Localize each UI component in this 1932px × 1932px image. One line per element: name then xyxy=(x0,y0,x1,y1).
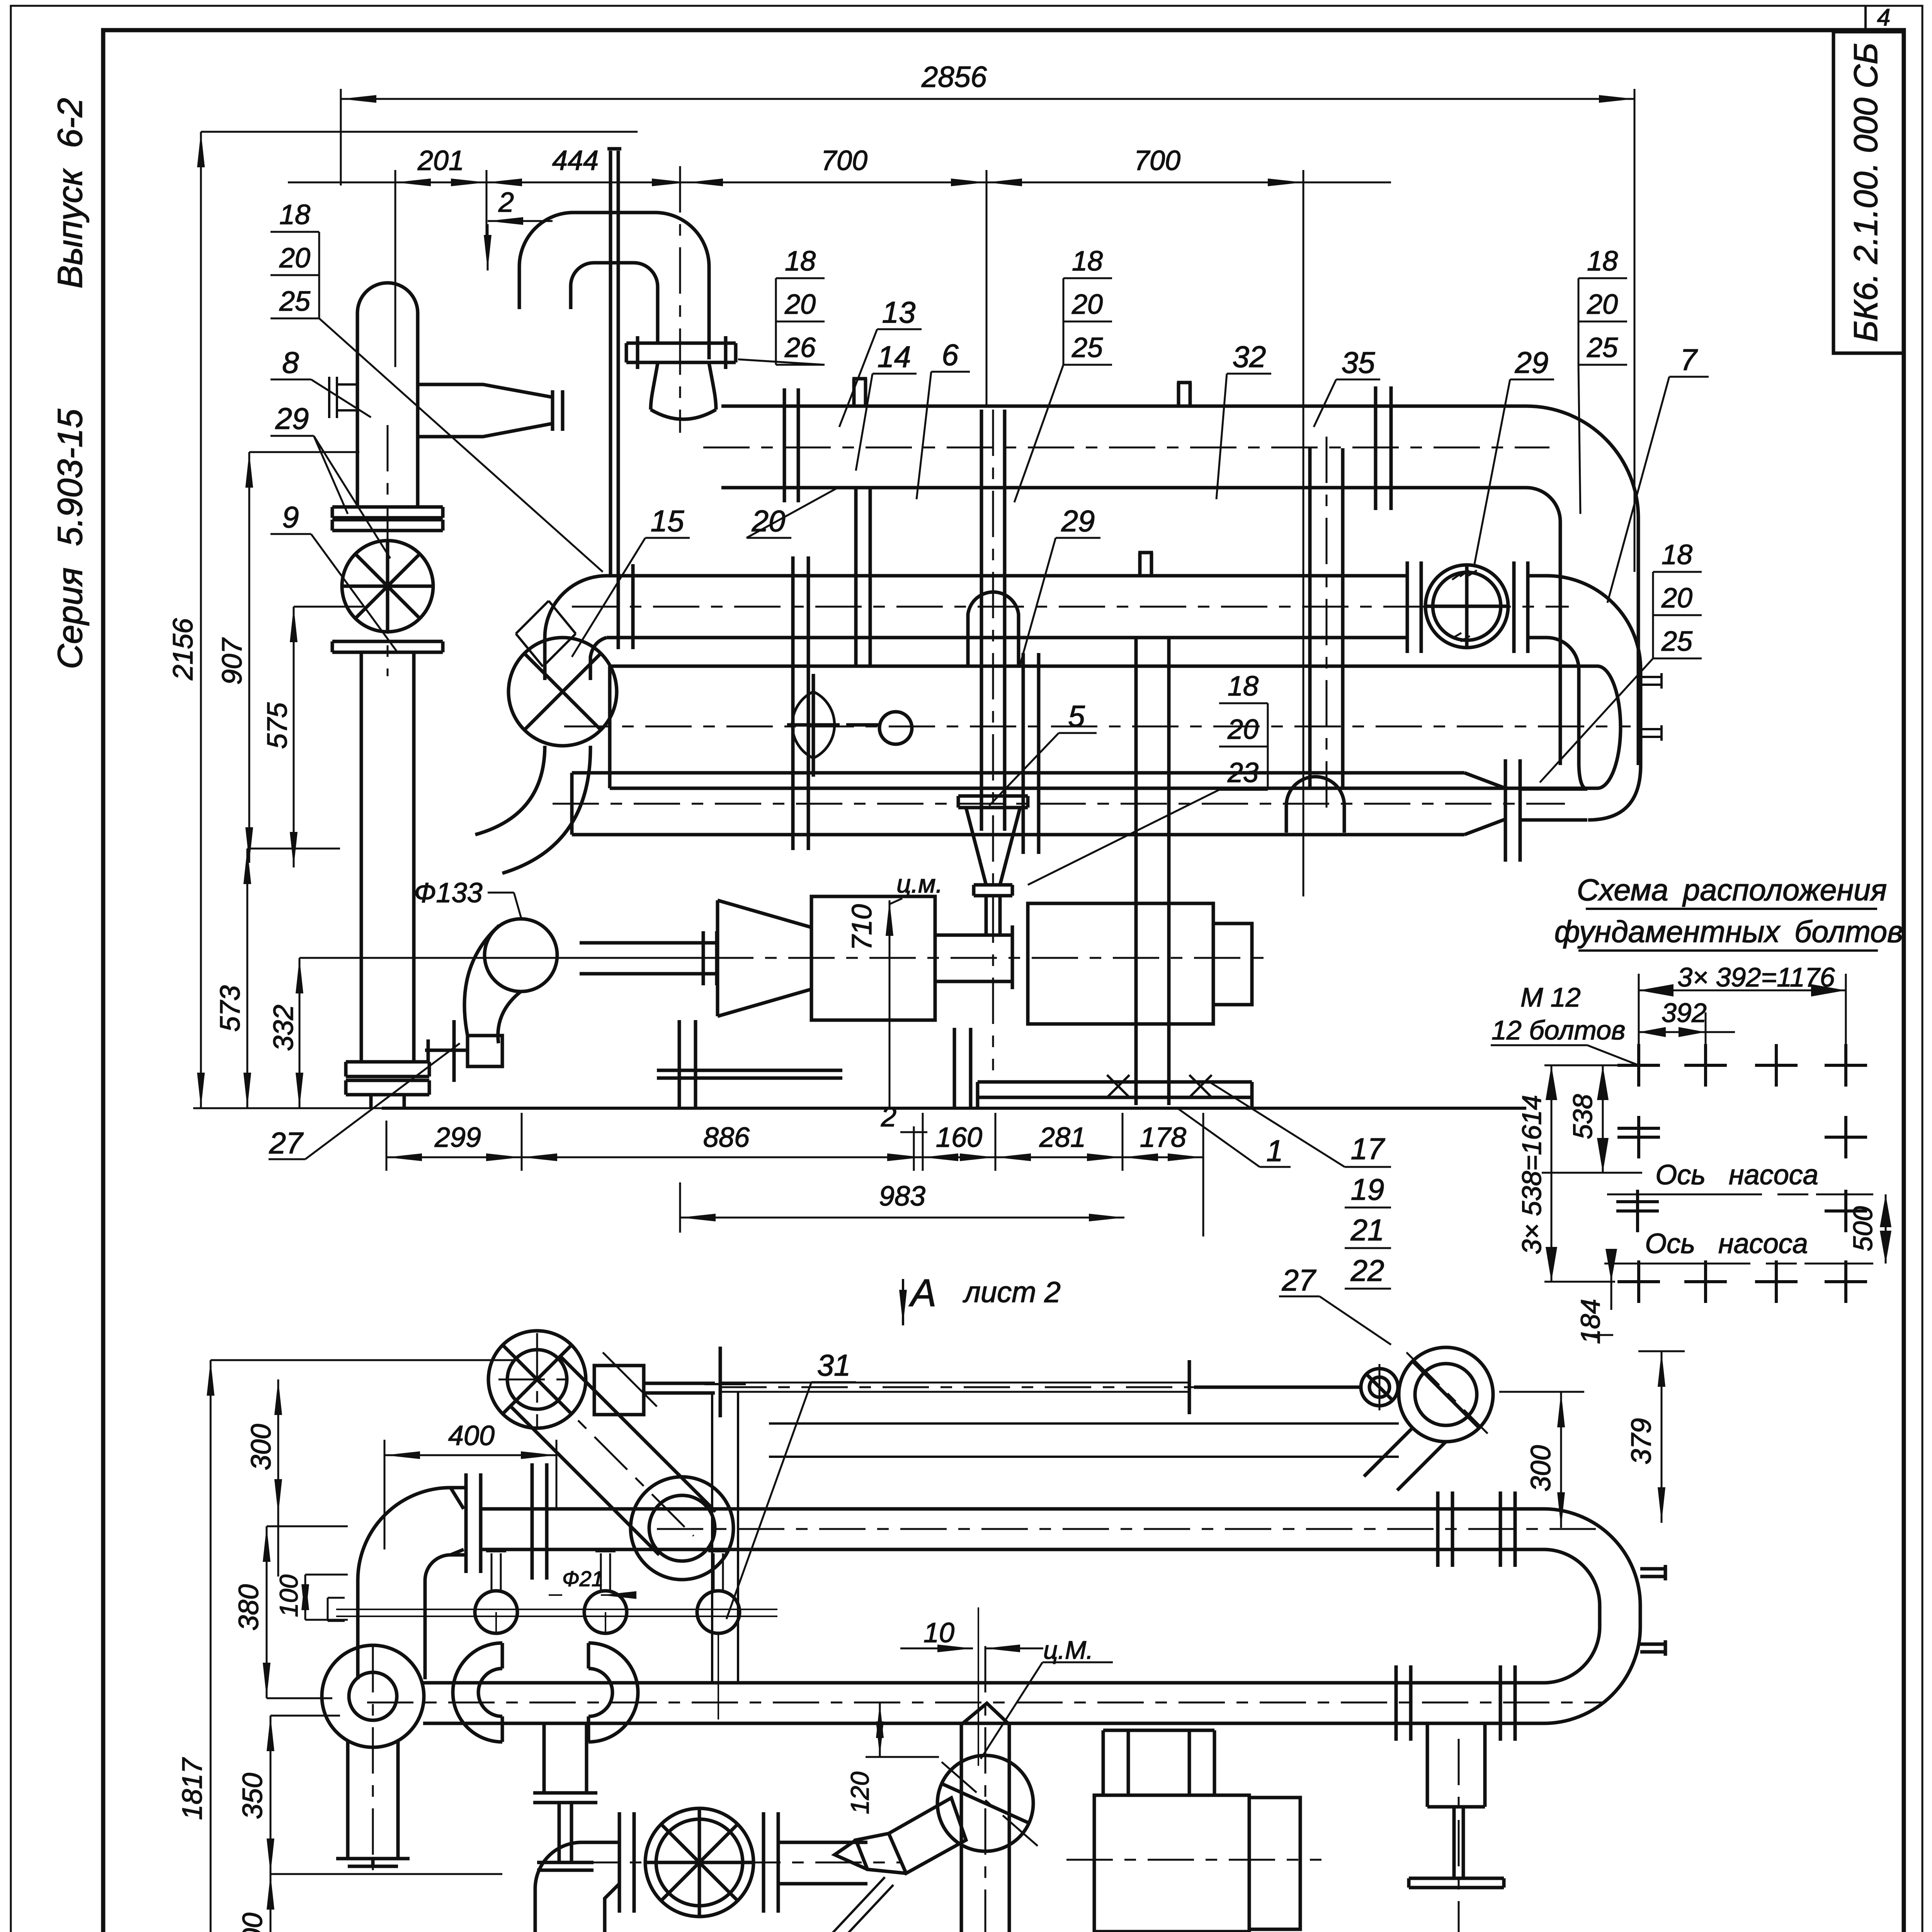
dim 300 left xyxy=(277,1379,279,1577)
elbow circle row B left xyxy=(631,1477,733,1580)
top pipe right elbow down xyxy=(1526,406,1638,587)
sheet number box xyxy=(1864,6,1867,30)
svg-text:18: 18 xyxy=(1072,246,1103,277)
left vertical dim 3x538=1614 xyxy=(1544,1065,1640,1282)
T branch on row C with support xyxy=(1427,1723,1485,1807)
handwheel valve 9 xyxy=(342,541,433,632)
dim row 201 444 700 700 xyxy=(288,170,1391,896)
svg-text:18: 18 xyxy=(1662,539,1692,570)
svg-text:178: 178 xyxy=(1140,1122,1186,1153)
svg-text:А: А xyxy=(909,1271,937,1315)
flange stack x2650 xyxy=(1023,653,1039,854)
valve 29 on band2 xyxy=(1425,565,1508,648)
reducer item 5 xyxy=(958,796,1028,808)
svg-text:575: 575 xyxy=(262,702,293,749)
svg-text:983: 983 xyxy=(879,1181,925,1212)
svg-text:500: 500 xyxy=(1848,1206,1878,1252)
riser pipe item 31 xyxy=(704,1384,746,1683)
svg-text:9: 9 xyxy=(282,500,299,534)
svg-text:6: 6 xyxy=(942,338,959,372)
dim 300 right xyxy=(1499,1392,1584,1528)
vertical stub pipe band3 to top pipe xyxy=(856,488,870,666)
row D pipe left elbow down to F159 main xyxy=(535,1842,619,1932)
svg-text:538: 538 xyxy=(1568,1094,1598,1139)
svg-text:332: 332 xyxy=(268,1005,299,1051)
callout box 18 20 23 xyxy=(1227,671,1259,788)
left assembly elbow 8 xyxy=(357,283,418,507)
top pipe item 6 xyxy=(721,406,1526,488)
svg-text:15: 15 xyxy=(651,504,684,538)
svg-text:2: 2 xyxy=(498,187,514,218)
dim 350 xyxy=(270,1716,502,1874)
dim 2856 xyxy=(341,89,1634,572)
valve circle 27 xyxy=(1361,1369,1398,1406)
svg-text:27: 27 xyxy=(1282,1263,1316,1297)
svg-text:лист 2: лист 2 xyxy=(963,1276,1061,1309)
flange pair lower xyxy=(332,641,443,652)
diagonal pipe from flange circle xyxy=(1364,1428,1446,1490)
dim 380 xyxy=(267,1526,348,1698)
svg-text:25: 25 xyxy=(1587,332,1618,363)
thin control line with unions xyxy=(336,1609,777,1616)
svg-text:10: 10 xyxy=(923,1617,954,1648)
svg-text:Схема расположения: Схема расположения xyxy=(1577,872,1887,907)
bolt crosses row2 xyxy=(1617,1116,1660,1158)
dim 1817 xyxy=(211,1360,518,1932)
band2 pipe xyxy=(607,576,1406,638)
floor line xyxy=(382,1107,1526,1110)
studs on right elbow xyxy=(1640,1565,1665,1656)
svg-text:886: 886 xyxy=(703,1122,750,1153)
svg-text:20: 20 xyxy=(1071,289,1103,320)
flange pairs row B right xyxy=(1438,1492,1515,1567)
svg-text:2156: 2156 xyxy=(168,618,199,680)
svg-text:7: 7 xyxy=(1680,343,1698,377)
svg-text:573: 573 xyxy=(215,985,246,1032)
small studs on shells xyxy=(852,379,1192,406)
svg-text:184: 184 xyxy=(1575,1299,1605,1344)
svg-text:19: 19 xyxy=(1351,1172,1384,1206)
flange pair on band2 left xyxy=(618,564,633,649)
svg-text:25: 25 xyxy=(279,286,311,317)
motor xyxy=(1028,903,1213,1024)
right downcomer to shell xyxy=(1560,587,1638,765)
svg-text:27: 27 xyxy=(269,1126,304,1160)
svg-text:32: 32 xyxy=(1233,340,1266,374)
svg-text:380: 380 xyxy=(233,1584,264,1631)
svg-text:444: 444 xyxy=(552,145,599,176)
band4 lower pipe xyxy=(572,773,1464,835)
pump inlet pipe xyxy=(580,931,718,985)
svg-text:13: 13 xyxy=(882,295,916,329)
svg-text:фундаментных болтов: фундаментных болтов xyxy=(1554,914,1903,949)
svg-text:18: 18 xyxy=(1587,246,1618,277)
studs on elbow 7 xyxy=(1641,673,1662,741)
svg-text:1817: 1817 xyxy=(177,1757,208,1820)
bottom row crosses xyxy=(1617,1260,1660,1303)
row B pipe xyxy=(481,1509,1544,1549)
svg-text:160: 160 xyxy=(936,1122,982,1153)
svg-text:ц.м.: ц.м. xyxy=(896,869,943,898)
flange stack x2060 xyxy=(784,388,808,850)
flange pairs row C right xyxy=(1396,1665,1515,1741)
svg-text:29: 29 xyxy=(1515,345,1549,379)
svg-text:120: 120 xyxy=(845,1772,874,1814)
X-valve 15 xyxy=(509,638,617,746)
dim 500 xyxy=(270,1874,502,1932)
svg-text:Серия 5.903-15: Серия 5.903-15 xyxy=(51,408,90,669)
left vertical pipe with ring xyxy=(322,1645,424,1747)
svg-text:20: 20 xyxy=(1587,289,1618,320)
arch right leg flange xyxy=(626,336,736,369)
svg-text:100: 100 xyxy=(274,1575,303,1617)
svg-text:21: 21 xyxy=(1350,1213,1384,1247)
dim 400 xyxy=(384,1440,556,1549)
valve stem T-handle xyxy=(644,1347,720,1417)
riser pipe A xyxy=(981,410,1005,831)
svg-text:М 12: М 12 xyxy=(1520,982,1581,1012)
svg-text:18: 18 xyxy=(785,246,816,277)
svg-text:31: 31 xyxy=(817,1348,851,1382)
left upper horizontal pipe xyxy=(769,1423,1399,1457)
band2 right elbow item 7 xyxy=(1547,576,1641,765)
crosses pump axis row xyxy=(1616,1190,1659,1232)
bottom dim row xyxy=(386,1113,1203,1236)
riser pipe C xyxy=(1310,448,1343,788)
dim 538 xyxy=(1542,1065,1642,1173)
svg-text:26: 26 xyxy=(784,332,816,363)
left pipe down to floor xyxy=(361,652,414,1062)
svg-text:201: 201 xyxy=(417,145,464,176)
valve row D xyxy=(645,1808,753,1917)
svg-text:25: 25 xyxy=(1071,332,1103,363)
callout box 18 20 26 xyxy=(784,246,816,363)
svg-text:710: 710 xyxy=(847,904,878,951)
dim 120 xyxy=(866,1702,939,1757)
lens valve on shell xyxy=(792,692,834,758)
centerlines drawing2 xyxy=(367,1333,1604,1932)
svg-text:12 болтов: 12 болтов xyxy=(1492,1015,1626,1045)
svg-text:Ось насоса: Ось насоса xyxy=(1645,1228,1808,1259)
svg-text:25: 25 xyxy=(1661,626,1693,657)
top arch pipe xyxy=(519,213,709,359)
pump1 diagonal pipe xyxy=(511,1357,716,1555)
svg-text:Ось насоса: Ось насоса xyxy=(1655,1160,1818,1190)
svg-text:700: 700 xyxy=(1134,145,1180,176)
riser pipe B xyxy=(1136,638,1169,1105)
svg-text:3× 538=1614: 3× 538=1614 xyxy=(1517,1095,1547,1255)
floor drain valve xyxy=(425,1020,502,1082)
big vertical pipe xyxy=(961,1725,1009,1932)
svg-text:700: 700 xyxy=(821,145,867,176)
svg-text:18: 18 xyxy=(279,199,310,230)
baseplate xyxy=(978,1082,1252,1108)
svg-text:29: 29 xyxy=(275,401,309,435)
svg-text:299: 299 xyxy=(434,1122,481,1153)
svg-text:20: 20 xyxy=(1227,714,1259,745)
frame above motor2 xyxy=(1103,1730,1214,1795)
svg-text:20: 20 xyxy=(784,289,816,320)
elbow circle upper xyxy=(937,1755,1033,1851)
bolt crosses row1 xyxy=(1616,1044,1867,1303)
document stamp box top right xyxy=(1833,32,1904,353)
svg-text:ц.М.: ц.М. xyxy=(1043,1636,1093,1664)
flange circle top right xyxy=(1399,1347,1493,1442)
T fitting with support xyxy=(533,1723,597,1870)
svg-text:22: 22 xyxy=(1350,1253,1384,1287)
arch right leg bell bottom xyxy=(651,363,716,410)
supports legs xyxy=(657,1020,971,1108)
band4 right taper cone xyxy=(1464,773,1505,835)
pump body xyxy=(811,896,935,1020)
svg-text:20: 20 xyxy=(279,243,310,274)
svg-text:500: 500 xyxy=(237,1913,268,1932)
callout box right 18 20 25 xyxy=(1587,246,1618,363)
left vertical dims xyxy=(193,132,711,1108)
svg-text:18: 18 xyxy=(1228,671,1259,702)
svg-text:БК6. 2.1.00. 000 СБ: БК6. 2.1.00. 000 СБ xyxy=(1847,43,1884,342)
svg-text:1: 1 xyxy=(1266,1134,1283,1168)
motor unit 2 xyxy=(1094,1795,1249,1932)
svg-text:281: 281 xyxy=(1039,1122,1086,1153)
svg-text:379: 379 xyxy=(1626,1418,1657,1464)
frame below motor2 xyxy=(1103,1932,1214,1932)
svg-text:2856: 2856 xyxy=(921,61,987,94)
svg-text:17: 17 xyxy=(1351,1132,1385,1166)
elbow 8 outlet right xyxy=(418,384,563,437)
left elbow top xyxy=(358,1488,466,1679)
svg-text:Выпуск 6-2: Выпуск 6-2 xyxy=(51,98,90,288)
flange pair top pipe right xyxy=(1376,386,1391,510)
saddle bends xyxy=(453,1643,502,1742)
dim 184 xyxy=(1611,1264,1612,1310)
shell dome nozzle xyxy=(968,592,1019,666)
row C pipe xyxy=(423,1683,1544,1723)
svg-text:23: 23 xyxy=(1227,757,1259,788)
elbow F133 xyxy=(485,919,557,992)
diagonal valve upper xyxy=(889,1798,966,1873)
pump1 discharge block xyxy=(594,1366,644,1415)
svg-text:350: 350 xyxy=(237,1773,268,1819)
svg-text:29: 29 xyxy=(1061,504,1095,538)
svg-text:907: 907 xyxy=(217,637,248,685)
dim 100 xyxy=(305,1575,348,1620)
svg-text:392: 392 xyxy=(1662,998,1707,1028)
shell band3 xyxy=(610,666,1597,788)
dim 500 xyxy=(1885,1194,1887,1264)
svg-text:8: 8 xyxy=(282,345,299,379)
centerlines xyxy=(388,166,1631,1070)
svg-text:20: 20 xyxy=(1661,583,1692,614)
svg-text:300: 300 xyxy=(1526,1445,1556,1492)
flange pair upper xyxy=(332,507,443,531)
svg-text:300: 300 xyxy=(246,1424,277,1470)
band4 hump xyxy=(1286,777,1344,833)
callout box 18 20 25 second xyxy=(1071,246,1103,363)
band2 left elbow down xyxy=(545,576,607,680)
svg-text:14: 14 xyxy=(878,340,911,374)
pump1 volute circle xyxy=(488,1331,586,1428)
svg-text:35: 35 xyxy=(1342,345,1375,379)
svg-text:400: 400 xyxy=(448,1420,495,1451)
row B right elbow U-turn xyxy=(1544,1509,1640,1723)
svg-text:Ф21: Ф21 xyxy=(562,1566,604,1591)
svg-text:Ф133: Ф133 xyxy=(414,878,482,908)
left callout box 18 20 25 xyxy=(279,199,311,317)
bend from X-valve to lower pipe xyxy=(475,746,590,873)
right callout box 18 20 25 on elbow xyxy=(1661,539,1693,657)
pump suction cone xyxy=(718,900,811,1016)
callout list 17 19 21 22 xyxy=(1350,1132,1385,1287)
svg-text:5: 5 xyxy=(1068,699,1085,733)
dim 379 xyxy=(1638,1351,1685,1523)
svg-text:4: 4 xyxy=(1877,4,1890,31)
tall stem rod xyxy=(607,149,621,576)
